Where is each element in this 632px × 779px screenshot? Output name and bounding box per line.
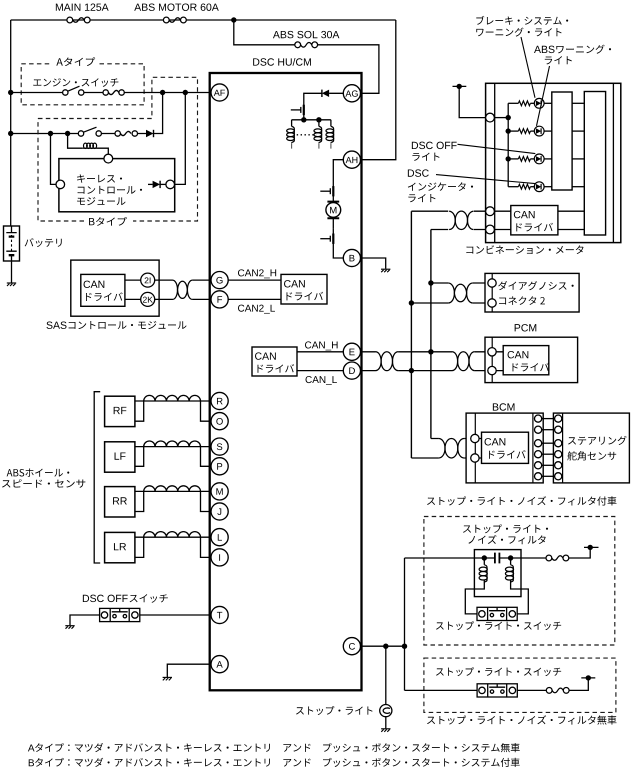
fuse stop light feed <box>546 555 569 561</box>
wire connector wave <box>108 90 119 94</box>
wire motor to FET low <box>332 218 334 228</box>
wire BCM to steering sensor <box>542 429 555 431</box>
wire switch to fuse <box>517 689 546 691</box>
coil noise filter L2 <box>505 565 513 583</box>
terminal S <box>211 438 228 455</box>
CAN driver (SAS) box <box>81 274 125 306</box>
wire BCM to steering sensor <box>542 442 555 444</box>
diode keyless output <box>153 181 161 188</box>
junction B+ stop light <box>588 545 593 550</box>
junction solenoid rail <box>301 117 306 122</box>
label CAN <box>84 281 105 288</box>
terminal R <box>211 392 228 409</box>
wire keyless left leg <box>51 134 57 185</box>
CAN driver (PCM) box <box>503 346 549 375</box>
junction bus B / diagnosis <box>428 280 433 285</box>
combination meter enclosure <box>486 83 621 242</box>
ground DSC OFF switch <box>65 626 74 629</box>
ground B terminal <box>381 269 390 272</box>
wire DSC OFF switch to ground <box>70 615 100 625</box>
terminal BCM pin <box>535 440 542 447</box>
push switch stop light (filtered) <box>477 607 517 620</box>
sensor RF box <box>105 396 135 426</box>
terminal steering sensor pin <box>555 451 562 458</box>
fuse ABS SOL 30A <box>295 42 318 48</box>
wire solenoid coil ends <box>292 143 331 149</box>
wire B to ground <box>361 258 386 269</box>
wire connector wave <box>120 131 130 135</box>
label DSC OFF switch <box>130 594 168 603</box>
DSC HU/CM enclosure <box>210 73 362 690</box>
label A-type <box>56 57 95 66</box>
junction lamp bus row3 <box>506 156 511 161</box>
wire LR signal to DSC <box>135 536 211 538</box>
label ABS warning <box>556 45 611 54</box>
wire RF return rise <box>135 401 144 421</box>
note B prefix <box>29 759 34 766</box>
label ABS SOL 30A <box>273 31 339 38</box>
junction stop lamp branch <box>383 644 388 649</box>
transistor motor FET low <box>320 228 333 249</box>
connector contact <box>115 131 120 136</box>
junction lamp bus feed <box>506 115 511 120</box>
junction B+ stub <box>457 84 462 89</box>
twisted pair LF <box>144 441 201 447</box>
twisted pair RR <box>144 486 201 492</box>
label with stop light noise filter <box>427 496 617 505</box>
wire LF signal to DSC <box>135 446 211 448</box>
connector contact <box>103 90 108 95</box>
connector contact <box>132 131 137 136</box>
wire <box>530 186 534 188</box>
transistor solenoid driver FET <box>291 100 304 120</box>
push switch DSC OFF <box>100 608 140 621</box>
wire stub <box>485 210 487 212</box>
wire lamp to logic <box>544 186 552 188</box>
twisted pair DSC CAN <box>376 352 399 371</box>
diode solenoid feed <box>322 90 329 97</box>
leader DSC indicator <box>436 175 535 184</box>
SAS control module box <box>71 260 159 316</box>
wire lamp row brake warning <box>508 102 518 104</box>
label CAN <box>284 280 305 287</box>
terminal AF <box>211 84 228 101</box>
wire meter driver to block <box>558 211 584 229</box>
wire battery to ground <box>11 261 13 283</box>
terminal J <box>211 503 228 520</box>
terminal BCM CAN L <box>471 454 479 462</box>
wire twist to PCM twist <box>398 352 452 371</box>
label steering line1 <box>568 436 627 445</box>
wire BCM to steering sensor <box>542 464 555 466</box>
terminal T <box>211 606 228 623</box>
wire <box>530 130 534 132</box>
fuse stop light <box>546 688 569 694</box>
junction filter cap left <box>482 555 487 560</box>
CAN driver (BCM) box <box>482 432 529 463</box>
label DSC indicator line1 <box>408 169 429 176</box>
BCM box <box>466 413 543 483</box>
wire to stop lamp <box>385 646 387 704</box>
ground stop lamp <box>381 729 390 732</box>
terminal E <box>343 343 360 360</box>
terminal O <box>211 413 228 430</box>
wire BCM to steering sensor <box>542 418 555 420</box>
resistor ABS warning <box>518 129 530 134</box>
terminal PCM CAN H <box>488 348 496 356</box>
twisted pair LR <box>144 532 201 538</box>
label CAN <box>514 211 535 218</box>
indicator lamp DSC OFF <box>534 154 544 164</box>
label driver <box>86 292 123 301</box>
label diagnosis connector line1 <box>498 281 573 290</box>
terminal BCM pin <box>535 426 542 433</box>
terminal G <box>211 272 228 289</box>
switch contact <box>63 90 68 95</box>
label stop light switch <box>436 621 561 630</box>
switch blade <box>68 86 80 91</box>
label DSC indicator line2 <box>408 182 473 191</box>
wire filter fuse to B+ <box>569 547 599 558</box>
wire stop lamp to ground <box>385 717 387 729</box>
wire twist to meter <box>474 211 486 229</box>
fuse ABS MOTOR 60A <box>163 17 186 23</box>
wire lamp to logic <box>544 102 552 104</box>
terminal L <box>211 529 228 546</box>
wire engine-switch row to AF <box>11 92 211 94</box>
terminal M <box>211 483 228 500</box>
junction bus A / CAN_L <box>409 368 414 373</box>
wire to filter coil R <box>510 558 512 565</box>
terminal PCM CAN L <box>488 366 496 374</box>
wire PCM pins to driver <box>496 352 503 371</box>
wire filter L2 to switch <box>511 580 529 614</box>
wire bus to BCM twist <box>411 439 438 459</box>
transistor motor FET high <box>320 181 333 202</box>
B-type dashed enclosure <box>38 77 198 221</box>
wire twist to PCM <box>475 352 488 371</box>
label CAN <box>508 351 529 358</box>
label CAN2_H <box>238 269 276 278</box>
label keyless line2 <box>78 186 142 194</box>
label PCM <box>515 324 537 331</box>
indicator lamp DSC indicator <box>534 182 544 192</box>
wire CAN bus A <box>410 211 412 458</box>
note B-type <box>35 758 520 767</box>
switch contact <box>78 131 83 136</box>
wire stop light feed riser <box>404 558 406 690</box>
label SAS prefix <box>46 321 66 328</box>
wire to filter coil L <box>483 558 485 565</box>
bracket wheel sensors <box>94 392 100 563</box>
keyless control module box <box>59 159 175 212</box>
twisted pair meter CAN <box>449 211 474 229</box>
wire logic to connector <box>572 158 584 160</box>
terminal B <box>343 249 360 266</box>
label DSC OFF light line2 <box>412 153 439 161</box>
leader ABS warning <box>537 66 550 126</box>
wire diode to right pin <box>160 183 166 185</box>
wire lamp row DSC OFF <box>508 158 518 160</box>
terminal BCM pin <box>535 415 542 422</box>
wire AG to solenoid FET <box>304 93 343 100</box>
wire RF signal to DSC <box>135 400 211 402</box>
label diagnosis connector line2 <box>499 296 545 305</box>
label stop light switch <box>436 667 561 676</box>
label MAIN 125A <box>56 3 109 10</box>
label ABS wheel line2 <box>2 479 85 488</box>
wire top feed to AH <box>361 20 396 160</box>
junction B+ stop light <box>586 675 591 680</box>
junction left bus / B row <box>8 131 13 136</box>
wire F to CAN2 driver <box>228 298 281 300</box>
connector contact <box>119 90 124 95</box>
junction solenoid rail <box>316 117 321 122</box>
label driver <box>257 364 294 373</box>
terminal BCM pin <box>535 451 542 458</box>
label battery <box>25 238 62 247</box>
label driver <box>286 292 323 301</box>
wire ABS SOL branch to AG <box>234 20 379 93</box>
CAN driver (meter) box <box>511 206 558 235</box>
wire logic to connector <box>572 130 584 132</box>
dotted link solenoid gang <box>297 134 317 136</box>
junction node top feed split <box>231 17 236 22</box>
wire A to ground <box>167 664 211 677</box>
label CAN <box>485 438 506 445</box>
note A-type <box>35 743 520 752</box>
wire CAN bus B <box>430 230 432 439</box>
wire bus to meter twist <box>411 211 448 229</box>
label ABS warning line2 <box>545 56 572 64</box>
wire twist to diagnosis <box>473 283 488 303</box>
twisted pair SAS CAN2 <box>173 280 193 299</box>
wire coil to module top pin <box>97 148 108 154</box>
terminal keyless left pin <box>56 180 65 189</box>
wire relay coil feed <box>68 134 83 149</box>
wire fuse to B+ <box>569 678 595 691</box>
label DSC OFF switch prefix <box>83 595 128 602</box>
label driver <box>489 450 526 459</box>
label without stop light noise filter <box>427 715 617 724</box>
wire stop switch feed through filter <box>405 557 549 559</box>
label ABS MOTOR 60A <box>134 3 219 10</box>
leader DSC OFF light <box>458 144 536 153</box>
wire SAS CAN driver to pins <box>125 280 141 299</box>
wire B+ feed top and left battery drop <box>11 20 396 226</box>
coil keyless antenna <box>83 143 97 148</box>
terminal steering sensor pin <box>555 426 562 433</box>
note A prefix <box>28 745 35 752</box>
terminal F <box>211 291 228 308</box>
label CAN_H <box>305 341 338 350</box>
wire G to CAN2 driver <box>228 279 281 281</box>
label BCM <box>493 403 515 410</box>
switch contact <box>96 131 101 136</box>
wire <box>530 102 534 104</box>
terminal keyless top pin <box>104 154 113 163</box>
terminal AG <box>343 85 360 102</box>
wire E/D to twist <box>361 352 376 371</box>
wire BCM to steering sensor <box>542 453 555 455</box>
junction AF row / keyless riser <box>183 90 188 95</box>
junction bus A / diagnosis <box>409 300 414 305</box>
junction filter cap right <box>508 555 513 560</box>
label keyless line3 <box>77 197 125 205</box>
sensor LF box <box>105 442 135 472</box>
coil solenoid valve 3 <box>326 126 334 142</box>
label DSC indicator line3 <box>408 194 435 202</box>
battery <box>4 226 20 261</box>
coil noise filter L1 <box>479 565 487 583</box>
label steering line2 <box>567 451 616 460</box>
wire RR return rise <box>135 491 144 511</box>
wire twist to G/F <box>192 280 211 299</box>
wire lamp to logic <box>544 130 552 132</box>
junction bus B / CAN_H <box>428 349 433 354</box>
resistor brake warning <box>518 101 530 106</box>
label brake system warning line2 <box>476 28 561 37</box>
lamp stop light <box>380 705 392 717</box>
wire lamp to logic <box>544 158 552 160</box>
wire <box>530 158 534 160</box>
label engine switch <box>33 78 118 87</box>
wire meter B+ to lamp bus <box>494 117 508 119</box>
wire BCM pins to driver <box>479 439 481 459</box>
meter logic box <box>552 92 572 190</box>
ground battery <box>7 283 16 286</box>
wire LF return rise <box>135 447 144 467</box>
wire lamp row ABS warning <box>508 130 518 132</box>
resistor DSC OFF <box>518 157 530 162</box>
label ABS wheel line1 <box>7 469 70 477</box>
wire twist to BCM <box>464 439 471 459</box>
coil solenoid valve 1 <box>287 126 295 142</box>
wire CAN driver to E <box>297 351 343 353</box>
wire bus to diagnosis twist <box>411 283 448 303</box>
diagnosis connector box <box>485 273 579 312</box>
wire diode lead <box>148 183 153 185</box>
label CAN2_L <box>238 305 275 314</box>
twisted pair BCM CAN <box>439 438 465 458</box>
junction B row / relay coil leg <box>65 131 70 136</box>
A-type dashed enclosure <box>21 64 144 105</box>
terminal SAS pin 2K <box>141 292 155 306</box>
terminal A <box>211 656 228 673</box>
wire RF return to DSC <box>201 401 211 421</box>
CAN driver (DSC CAN2) box <box>281 274 327 304</box>
terminal BCM pin <box>535 462 542 469</box>
twisted pair RF <box>144 395 201 401</box>
terminal D <box>343 362 360 379</box>
terminal P <box>211 458 228 475</box>
wire AH to motor FET <box>333 160 343 181</box>
terminal BCM CAN H <box>471 434 479 442</box>
indicator lamp ABS warning <box>534 126 544 136</box>
label noise filter line1 <box>463 524 548 533</box>
terminal keyless right pin <box>166 180 175 189</box>
junction B row / keyless left leg <box>48 131 53 136</box>
terminal meter CAN H <box>486 207 495 216</box>
wire meter lamp bus <box>507 103 509 186</box>
ground A terminal <box>163 677 172 680</box>
terminal meter B+ <box>486 113 495 122</box>
junction AF row / B-row riser <box>160 90 165 95</box>
resistor DSC indicator <box>518 184 530 189</box>
CAN driver (DSC CAN) box <box>252 347 297 376</box>
wire FET low to B <box>333 249 343 258</box>
label driver <box>516 223 553 232</box>
twisted pair diagnosis CAN <box>448 283 473 303</box>
terminal steering sensor pin <box>555 462 562 469</box>
wire RR return to DSC <box>201 491 211 511</box>
wire C row <box>361 645 405 647</box>
terminal diagnosis CAN L <box>488 299 496 307</box>
terminal SAS pin 2I <box>141 273 155 287</box>
switch contact <box>79 90 84 95</box>
sensor RR box <box>105 487 135 517</box>
label brake system warning line1 <box>476 16 568 25</box>
twisted pair PCM CAN <box>452 352 475 371</box>
diode B row <box>146 130 154 137</box>
label CAN_L <box>306 376 337 385</box>
label stop light <box>296 706 373 715</box>
coil solenoid valve 2 <box>314 126 322 142</box>
terminal I <box>211 549 228 566</box>
label CAN <box>255 352 276 359</box>
wire BCM to steering sensor <box>542 475 555 477</box>
terminal steering sensor pin <box>555 415 562 422</box>
terminal meter CAN L <box>486 225 495 234</box>
label combination meter <box>466 245 583 254</box>
label DSC OFF light line1 <box>412 142 457 149</box>
motor M <box>326 202 341 219</box>
leader brake warning <box>521 37 535 98</box>
push switch stop light (no filter) <box>477 684 517 697</box>
junction lamp bus row2 <box>506 128 511 133</box>
wire LF return to DSC <box>201 447 211 467</box>
PCM box <box>485 337 578 382</box>
sensor LR box <box>105 532 135 562</box>
terminal steering sensor pin <box>555 473 562 480</box>
capacitor noise filter <box>495 553 500 564</box>
fuse MAIN 125A <box>67 17 90 23</box>
wire DSC OFF switch to T <box>140 614 211 616</box>
terminal BCM pin <box>535 473 542 480</box>
wire meter B+ feed <box>453 86 486 117</box>
meter right block <box>584 92 605 236</box>
dashed enclosure with-filter variant <box>424 517 615 646</box>
terminal AH <box>343 151 360 168</box>
wire B row riser to AF row <box>154 93 163 134</box>
label keyless line1 <box>77 174 122 182</box>
wire SAS to twist <box>155 280 173 299</box>
terminal steering sensor pin <box>555 440 562 447</box>
noise filter box <box>474 550 521 597</box>
wire RR signal to DSC <box>135 490 211 492</box>
label DSC HU/CM <box>253 58 311 66</box>
label driver <box>512 363 549 372</box>
terminal diagnosis CAN H <box>488 279 496 287</box>
wire CAN driver to D <box>297 370 343 372</box>
wire meter CAN pins to driver <box>494 211 510 229</box>
wire lamp row DSC indicator <box>508 186 518 188</box>
label SAS control module <box>69 321 187 329</box>
switch blade <box>84 127 97 132</box>
wire logic to connector <box>572 186 584 188</box>
wire B-type power row <box>11 133 146 135</box>
wire filter L1 to switch <box>465 580 484 614</box>
